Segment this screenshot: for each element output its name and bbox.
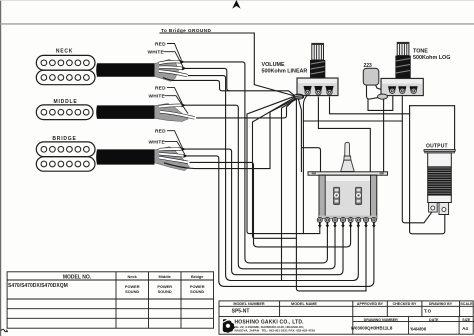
wire volume casing to bus lug6 join xyxy=(282,99,297,281)
wire neck black to ground run xyxy=(172,80,229,90)
svg-text:SCALE: SCALE xyxy=(460,302,473,306)
wire bridge red to bus lug4 xyxy=(184,149,343,275)
svg-text:SOUND: SOUND xyxy=(158,289,172,294)
svg-text:500Kohm LOG: 500Kohm LOG xyxy=(413,55,450,61)
lever xyxy=(345,142,350,156)
svg-text:RED: RED xyxy=(155,85,166,91)
bridge RED pointer xyxy=(167,131,182,148)
svg-text:Middle: Middle xyxy=(159,274,172,279)
threaded bushing xyxy=(310,60,325,78)
svg-text:S470/S470DX/S470DXQM: S470/S470DX/S470DXQM xyxy=(8,283,68,289)
wire volume lug1 down to ground line xyxy=(303,95,307,234)
svg-text:WHITE: WHITE xyxy=(149,94,166,100)
svg-text:WHITE: WHITE xyxy=(148,50,165,56)
neck fan wires xyxy=(159,62,188,81)
orientation arrow xyxy=(232,0,240,9)
svg-text:NAGOYA, JAPAN TEL: 052-931-2: NAGOYA, JAPAN TEL: 052-931-2221 FAX: 052… xyxy=(235,329,316,333)
bridge WHITE pointer xyxy=(165,142,185,155)
tone pot VR2 xyxy=(378,42,424,99)
wire bridge bare to volume ground xyxy=(195,99,295,169)
wire bridge white to bus lug8 xyxy=(186,156,374,287)
left side column xyxy=(319,175,325,218)
svg-text:SIZE: SIZE xyxy=(462,318,471,322)
neck cable xyxy=(96,63,154,77)
bridge wire terminal dots xyxy=(182,147,186,151)
wire middle red to bus lug3 xyxy=(184,105,335,269)
pot body xyxy=(297,78,338,96)
svg-text:W03000QH3HB11L8: W03000QH3HB11L8 xyxy=(351,326,393,331)
switch body xyxy=(319,175,377,218)
svg-text:NECK: NECK xyxy=(56,48,73,54)
wire jack flange ground xyxy=(410,106,455,150)
switch body bottom strip xyxy=(319,216,377,219)
wire neck bare to bus lug6 xyxy=(189,76,359,281)
neck WHITE pointer xyxy=(164,52,184,67)
bridge cable xyxy=(96,149,154,164)
neck pickup humbucker U1 xyxy=(36,55,95,84)
shaft knurled xyxy=(312,43,324,60)
left ear screw slot xyxy=(312,172,317,174)
svg-text:MODEL NUMBER: MODEL NUMBER xyxy=(233,302,265,306)
page border left edge xyxy=(0,0,1,336)
wire tone casing ground to switch plate xyxy=(383,99,385,172)
wire tone lug2 to jack left lug xyxy=(402,96,431,223)
right side column xyxy=(371,175,377,218)
wire neck red to bus lug2 xyxy=(183,62,327,263)
wire hot vertical to jack right lug xyxy=(410,106,445,234)
svg-text:BRIDGE: BRIDGE xyxy=(52,136,76,142)
svg-text:SOUND: SOUND xyxy=(190,289,204,294)
middle cable fan shield xyxy=(155,103,189,121)
bridge fan wires xyxy=(159,149,195,169)
middle pickup single coil xyxy=(36,105,93,120)
svg-text:DRAWING NUMBER: DRAWING NUMBER xyxy=(364,318,399,322)
5-way switch SW1 xyxy=(308,142,388,228)
lug tabs with holes xyxy=(305,90,332,95)
right ear screw slot xyxy=(379,172,384,174)
switch terminals 1-8 xyxy=(317,217,322,227)
contact slot B xyxy=(355,187,361,204)
wire middle white to volume ground xyxy=(197,98,297,118)
volume pot VR1 xyxy=(294,43,338,99)
output jack J1 xyxy=(424,150,455,215)
svg-text:SOUND: SOUND xyxy=(125,289,139,294)
wire neck white to volume ground xyxy=(185,68,296,96)
wire bridge wire3 to switch lug5 xyxy=(190,162,351,247)
bottom left page mark xyxy=(1,329,8,332)
neck RED pointer xyxy=(167,44,181,60)
wire volume casing loop down and left xyxy=(253,98,367,291)
wire capacitor right leg to tone lug1 xyxy=(376,85,393,94)
svg-text:SP5-NT: SP5-NT xyxy=(232,309,250,315)
svg-text:Neck: Neck xyxy=(128,274,138,279)
page border top faint xyxy=(0,0,474,2)
wire switch lug7 down to ground xyxy=(365,227,367,291)
grey separator line xyxy=(0,23,474,24)
svg-text:VOLUME: VOLUME xyxy=(262,62,285,68)
lug bases xyxy=(304,86,312,92)
wire volume lug3 hot to jack tip xyxy=(330,97,410,114)
svg-text:APPROVED BY: APPROVED BY xyxy=(357,302,384,306)
wire to bridge ground xyxy=(160,33,296,96)
wire volume lug1 to tone lug2 xyxy=(303,120,402,122)
svg-text:MIDDLE: MIDDLE xyxy=(54,99,78,105)
svg-text:A4: A4 xyxy=(462,326,468,331)
wire volume lug2 to switch xyxy=(318,97,370,171)
title block frame xyxy=(219,301,474,334)
wire capacitor left leg to tone casing xyxy=(367,85,379,99)
middle wire terminal dot xyxy=(182,103,186,107)
contact slot A xyxy=(333,187,339,204)
jack lugs xyxy=(429,203,438,213)
mounting plate xyxy=(308,172,388,175)
svg-text:WHITE: WHITE xyxy=(149,139,166,145)
middle RED pointer xyxy=(167,88,182,104)
bridge cable fan shield xyxy=(155,147,190,171)
model table xyxy=(7,272,213,328)
wire switch lug1 ground link to volume casing xyxy=(247,97,320,234)
svg-text:Bridge: Bridge xyxy=(191,274,204,279)
svg-text:MODEL NO.: MODEL NO. xyxy=(63,274,92,280)
svg-text:DRAWING BY: DRAWING BY xyxy=(429,302,453,306)
middle WHITE pointer xyxy=(165,96,189,114)
svg-text:'04/4/06: '04/4/06 xyxy=(410,327,427,332)
svg-text:T.O: T.O xyxy=(424,309,432,314)
middle cable xyxy=(96,105,154,119)
hoshino logo xyxy=(223,319,235,333)
svg-text:To Bridge GROUND: To Bridge GROUND xyxy=(161,28,211,34)
svg-text:OUTPUT: OUTPUT xyxy=(426,144,448,150)
capacitor C1 xyxy=(363,68,379,85)
bridge pickup humbucker xyxy=(36,142,95,171)
svg-text:RED: RED xyxy=(155,129,166,135)
neck wire terminal dots xyxy=(181,60,185,64)
volume casing ground solder lump xyxy=(294,94,304,99)
neck cable fan shield xyxy=(155,59,179,81)
svg-text:500Kohm LINEAR: 500Kohm LINEAR xyxy=(262,69,308,75)
svg-text:DATE: DATE xyxy=(429,318,439,322)
middle fan wires xyxy=(159,105,195,118)
wire tone lug1 loop xyxy=(368,96,393,111)
svg-text:TONE: TONE xyxy=(413,49,428,55)
svg-text:MODEL NAME: MODEL NAME xyxy=(291,302,317,306)
tone casing ground solder lump xyxy=(378,94,388,99)
wire volume casing to switch frame ground xyxy=(299,100,321,172)
svg-text:CHECKED BY: CHECKED BY xyxy=(393,302,417,306)
svg-text:RED: RED xyxy=(155,41,166,47)
